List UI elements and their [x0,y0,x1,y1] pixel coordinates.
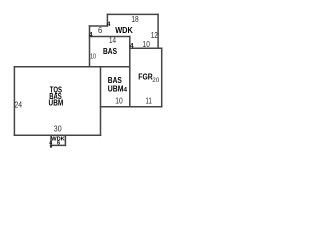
wall: main house right edge [100,67,102,136]
wall: FGR top edge [130,47,162,49]
svg-text:FGR: FGR [138,72,153,82]
svg-text:UBM: UBM [49,98,64,107]
wall: WDK top edge [107,13,158,15]
svg-text:14: 14 [109,35,116,45]
svg-text:WDK: WDK [115,26,133,35]
svg-text:UBM: UBM [108,84,124,94]
wall: main house left edge [13,67,15,136]
svg-text:11: 11 [146,95,153,105]
wall: FGR right edge [161,48,163,106]
wall: bottom WDK left edge [50,135,52,147]
svg-text:4: 4 [130,43,134,50]
svg-text:4: 4 [89,32,93,39]
svg-text:30: 30 [54,124,62,134]
svg-text:10: 10 [143,39,151,49]
wall: main house top edge [14,66,129,68]
svg-text:10: 10 [115,95,123,105]
wall: main house bottom edge [14,134,100,136]
wall: left edge of upper BAS [89,26,91,67]
wall: FGR and middle bottom edge [101,106,162,108]
svg-text:4: 4 [107,21,111,28]
wall: bottom WDK right edge [64,135,66,145]
svg-text:BAS: BAS [103,46,117,56]
svg-text:6: 6 [98,25,103,35]
wall: middle right edge [129,37,131,107]
svg-text:6: 6 [57,140,60,146]
wall: WDK step vertical [106,14,108,25]
wall: upper BAS top edge [90,36,130,38]
svg-text:10: 10 [90,52,96,61]
svg-text:20: 20 [152,77,159,84]
svg-text:4: 4 [123,86,127,93]
svg-text:12: 12 [151,30,158,40]
svg-text:18: 18 [131,14,139,24]
wall: WDK right edge [157,14,159,48]
wall: bottom WDK bottom edge [51,144,65,146]
svg-text:24: 24 [15,100,23,109]
arrow: bottom WDK corner [49,145,52,148]
wall: WDK step horizontal [90,25,108,27]
